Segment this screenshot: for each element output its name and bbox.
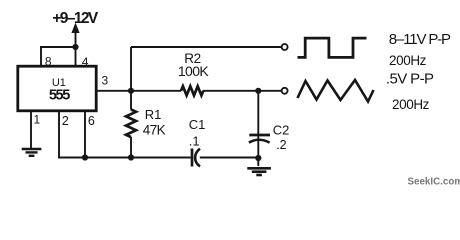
- svg-text:.1: .1: [189, 133, 200, 148]
- node C junction dot (bottom rail / C2 / ground): [255, 155, 261, 161]
- wire pin4 vertical to V+ node: [75, 47, 77, 66]
- svg-text:R1: R1: [145, 107, 162, 122]
- wire node B down through C2 to ground node: [257, 91, 259, 166]
- node pin6 junction dot: [82, 154, 88, 160]
- capacitor C2 top plate: [249, 134, 270, 137]
- wire pin2 down and bottom rail to C1: [58, 111, 191, 158]
- wire pin6 down to bottom rail: [84, 111, 86, 158]
- terminal square-wave output circle: [282, 44, 288, 50]
- capacitor C1 right curved plate: [195, 149, 200, 167]
- svg-text:C2: C2: [273, 123, 290, 138]
- node V+ junction dot: [72, 44, 78, 50]
- svg-text:.5V P-P: .5V P-P: [386, 71, 434, 88]
- ground under C2: [247, 168, 271, 175]
- svg-text:2: 2: [62, 114, 69, 128]
- V+ supply arrow stem: [75, 29, 77, 47]
- svg-text:1: 1: [33, 113, 40, 127]
- wire pin8 vertical to V+ rail: [40, 47, 42, 66]
- wire node A down to R1: [130, 91, 132, 110]
- svg-text:+9–12V: +9–12V: [52, 10, 99, 27]
- node A junction dot (pin3/R1/R2/rail): [128, 88, 134, 94]
- svg-text:8: 8: [45, 55, 52, 69]
- wire node A to R2: [131, 90, 181, 92]
- capacitor C2 bottom curved plate: [249, 140, 270, 143]
- svg-text:6: 6: [88, 114, 95, 128]
- wire node A up to square-wave rail: [130, 47, 132, 91]
- svg-text:555: 555: [49, 88, 70, 104]
- wire R1 bottom to bottom rail: [130, 137, 132, 158]
- svg-text:.2: .2: [276, 138, 286, 152]
- svg-text:3: 3: [101, 73, 108, 87]
- svg-text:SeekIC.com: SeekIC.com: [408, 176, 460, 187]
- square wave symbol: [298, 38, 367, 57]
- resistor R2 zigzag: [181, 86, 203, 95]
- svg-text:47K: 47K: [143, 123, 166, 138]
- svg-text:4: 4: [82, 55, 89, 69]
- svg-text:C1: C1: [189, 117, 206, 132]
- svg-text:100K: 100K: [178, 63, 210, 79]
- svg-text:200Hz: 200Hz: [389, 53, 427, 68]
- op IC U1 555 box: [18, 66, 96, 111]
- svg-text:8–11V P-P: 8–11V P-P: [389, 31, 451, 48]
- wire node B to triangle output: [258, 90, 281, 92]
- svg-text:200Hz: 200Hz: [392, 97, 430, 112]
- wire square-wave top rail: [131, 46, 281, 48]
- wire C1 to node C: [200, 157, 258, 159]
- node B junction dot (triangle output / C2): [255, 88, 261, 94]
- wire pin1 down to ground: [30, 111, 32, 148]
- node R1-bottom junction dot: [128, 154, 134, 160]
- V+ supply arrowhead: [71, 23, 79, 34]
- triangle wave symbol: [298, 80, 374, 102]
- wire R2 to node B: [203, 90, 258, 92]
- terminal triangle-wave output circle: [282, 88, 288, 94]
- wire pin3 to node A: [97, 90, 132, 92]
- capacitor C1 left plate: [191, 149, 194, 167]
- wire V+ horizontal rail: [40, 46, 76, 48]
- resistor R1 zigzag: [126, 110, 136, 138]
- ground under pin1: [22, 149, 42, 156]
